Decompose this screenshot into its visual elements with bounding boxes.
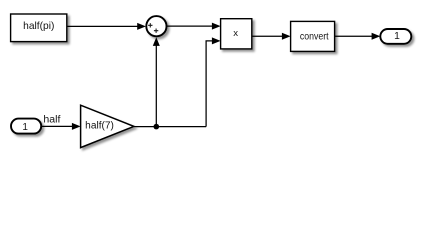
svg-text:x: x [233, 28, 238, 39]
svg-text:half: half [43, 114, 60, 125]
wire branch up to sum [153, 37, 160, 126]
wire sum to product [167, 23, 221, 30]
wire gain output horizontal [134, 126, 206, 128]
product block x [221, 19, 252, 49]
gain block half(7) [81, 105, 134, 147]
svg-text:1: 1 [22, 122, 28, 133]
svg-text:1: 1 [394, 31, 400, 42]
wire convert to outport [335, 33, 381, 40]
inport 1 [11, 119, 41, 134]
constant block half(pi) [11, 14, 67, 42]
svg-text:convert: convert [300, 32, 329, 43]
convert block [291, 21, 335, 51]
svg-text:half(7): half(7) [85, 121, 114, 132]
sum block U1 [146, 16, 166, 36]
junction dot [154, 124, 160, 130]
svg-text:half(pi): half(pi) [23, 21, 54, 32]
wire constant to sum [67, 23, 146, 30]
outport 1 [380, 29, 411, 44]
wire inport to gain, signal name half [41, 114, 80, 129]
wire branch up to product input 2 [206, 37, 221, 126]
wire product to convert [252, 33, 291, 40]
